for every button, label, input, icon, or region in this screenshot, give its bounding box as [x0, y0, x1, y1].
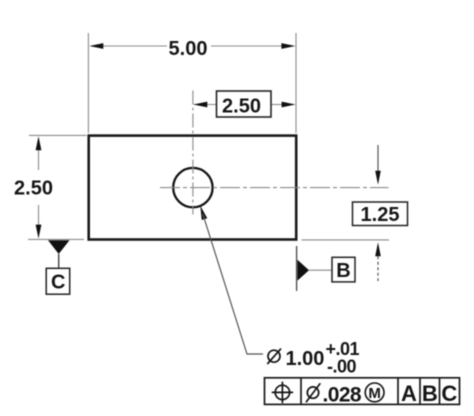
datum B triangle	[297, 260, 309, 281]
datum C box	[46, 268, 69, 294]
datum B box	[332, 257, 355, 282]
horizontal centerline of hole	[160, 187, 389, 189]
svg-text:B: B	[422, 381, 438, 406]
part outline rectangle	[89, 136, 297, 240]
hole callout diameter symbol	[268, 350, 280, 362]
dimension line 2.50 left lower segment	[38, 205, 40, 226]
datum C leader	[58, 254, 60, 268]
svg-text:1.25: 1.25	[361, 204, 400, 226]
dimension line 2.50 top left segment	[194, 104, 217, 106]
svg-text:2.50: 2.50	[222, 96, 261, 118]
feature control frame outer box	[265, 378, 460, 405]
svg-text:2.50: 2.50	[14, 178, 53, 200]
extension line right (5.00 / 2.50)	[295, 33, 297, 133]
basic dimension box 2.50	[217, 91, 272, 117]
svg-text:1.00: 1.00	[286, 348, 325, 370]
dimension line 2.50 left upper segment	[38, 149, 40, 170]
arrowhead 2.50 right	[282, 102, 296, 108]
dimension 1.25 upper line	[377, 145, 379, 171]
svg-text:B: B	[336, 260, 350, 282]
svg-text:5.00: 5.00	[169, 38, 208, 60]
arrowhead 5.00 left	[89, 43, 103, 49]
FCF divider after position symbol	[300, 378, 302, 405]
arrowhead left 2.50 up	[36, 136, 42, 150]
arrowhead 2.50 left	[193, 102, 207, 108]
MMC modifier circle	[365, 383, 384, 402]
FCF divider before C	[439, 378, 441, 405]
vertical centerline of hole	[192, 91, 194, 215]
svg-text:C: C	[51, 271, 65, 293]
svg-text:C: C	[441, 381, 457, 406]
hole circle	[173, 168, 212, 207]
position tolerance symbol	[272, 382, 293, 403]
extension line bottom for left 2.50	[28, 238, 84, 240]
arrowhead 1.25 down	[375, 171, 381, 185]
svg-text:A: A	[401, 381, 417, 406]
svg-text:.028: .028	[323, 383, 362, 406]
arrowhead 5.00 right	[281, 43, 295, 49]
hole leader arrowhead	[200, 206, 207, 220]
FCF diameter symbol	[307, 387, 318, 398]
datum B leader	[309, 269, 332, 271]
extension line top for left 2.50	[29, 134, 87, 136]
basic dimension box 1.25	[353, 202, 408, 226]
hole leader line	[203, 214, 263, 354]
datum C triangle	[48, 240, 70, 254]
FCF divider before B	[419, 378, 421, 405]
extension line below right edge (datum B)	[296, 246, 298, 291]
dimension line 2.50 top right segment	[271, 104, 282, 106]
FCF divider before A	[397, 378, 399, 405]
dimension 1.25 lower line	[377, 256, 379, 281]
svg-text:M: M	[368, 385, 381, 402]
dimension line 5.00 right segment	[211, 45, 283, 47]
dimension line 5.00 left segment	[102, 45, 167, 47]
arrowhead left 2.50 down	[36, 225, 42, 239]
arrowhead 1.25 up	[375, 242, 381, 256]
svg-text:-.00: -.00	[327, 356, 357, 376]
extension line bottom right (1.25)	[302, 239, 390, 241]
extension line left (5.00)	[87, 33, 89, 133]
